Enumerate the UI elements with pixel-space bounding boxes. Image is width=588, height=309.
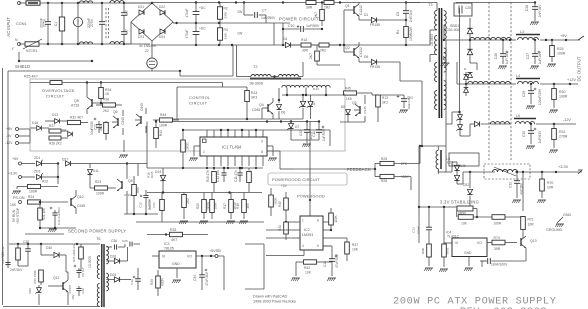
svg-text:47uF/16V: 47uF/16V [205,271,209,286]
svg-text:R35 220K/1W: R35 220K/1W [72,244,76,262]
svg-text:ZD1: ZD1 [34,156,40,160]
svg-text:VI: VI [455,241,458,245]
svg-text:C26: C26 [494,53,498,59]
svg-text:18nF/100V: 18nF/100V [491,263,508,267]
svg-text:R27: R27 [49,124,55,128]
svg-text:C11: C11 [312,131,316,137]
svg-text:D1: D1 [364,13,368,17]
svg-text:-12V: -12V [5,141,13,145]
svg-text:270R: 270R [559,135,568,139]
svg-text:D14: D14 [313,87,319,91]
svg-text:2K7: 2K7 [309,53,313,59]
svg-text:VI: VI [162,255,165,259]
svg-text:2R2: 2R2 [320,49,326,53]
svg-text:5: 5 [317,244,319,248]
svg-text:3K3: 3K3 [251,96,257,100]
svg-text:C27: C27 [526,53,530,59]
svg-text:+12V: +12V [567,78,576,82]
svg-text:L3: L3 [520,30,524,34]
svg-text:100K: 100K [421,248,425,255]
svg-text:8: 8 [261,150,263,154]
svg-text:D22: D22 [159,5,165,9]
svg-text:C945: C945 [140,103,144,111]
svg-text:R32 4K7: R32 4K7 [70,116,83,120]
svg-text:VO: VO [187,255,192,259]
svg-text:C18: C18 [323,261,327,267]
svg-text:C33: C33 [412,227,416,233]
svg-text:Q4: Q4 [259,103,264,107]
svg-text:10R: 10R [528,223,535,227]
svg-text:C22: C22 [299,130,303,136]
svg-text:ZD2: ZD2 [28,288,32,294]
svg-text:R4: R4 [396,30,400,34]
svg-text:CONTROL: CONTROL [189,95,211,100]
svg-text:+DC: +DC [199,27,206,31]
svg-text:T2: T2 [253,65,258,69]
svg-text:R31: R31 [559,130,566,134]
svg-text:R70: R70 [547,181,553,185]
svg-text:R25: R25 [381,157,387,161]
svg-text:150K: 150K [401,175,410,179]
svg-text:2nF/1kV: 2nF/1kV [409,9,413,22]
svg-text:680R: 680R [274,198,278,205]
svg-text:+DC: +DC [199,6,206,10]
svg-text:LM393: LM393 [302,233,313,237]
svg-text:C945: C945 [121,117,125,125]
svg-text:2nF/1kV: 2nF/1kV [10,268,23,272]
svg-text:C1: C1 [54,22,58,26]
svg-text:ZD3: ZD3 [34,170,40,174]
svg-text:1uF/250V: 1uF/250V [261,16,276,20]
svg-text:470uF: 470uF [185,29,189,38]
svg-text:D23: D23 [138,35,144,39]
svg-text:GROUND: GROUND [546,228,563,232]
svg-text:D6: D6 [281,111,285,115]
svg-text:+3.3V: +3.3V [8,172,18,176]
svg-text:Q2: Q2 [345,46,350,50]
svg-text:OVERVOLTAGE: OVERVOLTAGE [42,88,75,93]
svg-text:D7: D7 [295,125,299,129]
svg-text:C40: C40 [81,288,85,294]
svg-text:R18: R18 [236,203,240,209]
svg-text:D8: D8 [341,105,345,109]
svg-text:D32: D32 [463,183,469,187]
svg-text:1: 1 [302,219,304,223]
svg-text:R44: R44 [160,113,166,117]
svg-text:C29: C29 [522,91,526,97]
svg-text:C945: C945 [363,106,367,114]
svg-text:R14: R14 [251,91,257,95]
svg-text:Drawn with PadCAD: Drawn with PadCAD [253,295,287,299]
svg-text:IC2: IC2 [304,228,310,232]
svg-text:100R: 100R [494,222,503,226]
svg-text:-12V: -12V [563,118,571,122]
svg-text:C7: C7 [262,9,266,13]
svg-text:R43: R43 [159,130,163,136]
svg-text:SHIELD: SHIELD [15,64,30,69]
svg-text:POWERGOOD CIRCUIT: POWERGOOD CIRCUIT [272,177,320,182]
svg-text:D14: D14 [155,170,161,174]
svg-text:4n7: 4n7 [125,29,129,35]
svg-text:VO: VO [477,241,482,245]
svg-text:2K2: 2K2 [186,198,190,204]
svg-text:R74: R74 [494,236,500,240]
svg-text:A733: A733 [71,104,79,108]
svg-text:C945: C945 [252,108,260,112]
svg-text:-5V: -5V [6,134,12,138]
svg-text:C38: C38 [23,240,29,244]
svg-text:IC3: IC3 [164,242,170,246]
svg-text:GND: GND [464,251,472,255]
svg-text:L4: L4 [516,74,520,78]
svg-text:100R/2W: 100R/2W [409,26,413,41]
svg-text:10K: 10K [305,271,312,275]
svg-text:D21: D21 [138,5,144,9]
svg-text:20V: 20V [71,294,75,299]
svg-text:C13 1uF/50V: C13 1uF/50V [57,206,61,225]
svg-text:100R: 100R [559,95,568,99]
svg-text:D4: D4 [283,37,287,41]
svg-text:D9: D9 [364,55,368,59]
svg-text:100nF: 100nF [417,226,421,235]
svg-text:Q5: Q5 [74,99,79,103]
svg-text:GND: GND [563,213,571,217]
svg-text:1998-2003 Pavel Ruzicka: 1998-2003 Pavel Ruzicka [253,300,297,304]
svg-text:C25: C25 [465,6,471,10]
svg-text:IC1 TL494: IC1 TL494 [222,145,242,150]
svg-text:1K5: 1K5 [346,97,352,101]
svg-text:19-0303: 19-0303 [430,34,434,46]
svg-text:330K: 330K [224,31,228,39]
svg-text:98-3008: 98-3008 [250,82,263,86]
svg-text:A733: A733 [124,193,131,197]
svg-text:100K: 100K [334,214,338,222]
svg-text:R13: R13 [382,96,388,100]
svg-text:2K91: 2K91 [186,142,190,150]
svg-text:330K: 330K [224,10,228,18]
svg-text:10uF/16V: 10uF/16V [407,97,411,110]
svg-text:R40: R40 [278,201,282,207]
svg-text:Q8: Q8 [128,179,133,183]
svg-text:NTCR1: NTCR1 [26,49,37,53]
svg-text:R45: R45 [345,87,351,91]
svg-text:3K3: 3K3 [382,101,388,105]
svg-text:+5V STOP: +5V STOP [16,207,20,224]
svg-text:27K: 27K [401,162,408,166]
svg-text:R26: R26 [381,179,387,183]
svg-text:2R2: 2R2 [324,6,330,10]
svg-text:C945: C945 [77,204,85,208]
svg-text:100R: 100R [96,192,105,196]
svg-text:1W: 1W [237,10,243,14]
svg-text:C36: C36 [111,239,117,243]
svg-text:8: 8 [317,219,319,223]
svg-text:CIRCUIT: CIRCUIT [189,101,208,106]
svg-text:C12: C12 [93,124,97,130]
svg-text:R23: R23 [95,180,101,184]
svg-text:R37: R37 [352,243,358,247]
svg-text:D30: D30 [46,246,52,250]
svg-text:4: 4 [302,244,304,248]
svg-text:R33: R33 [170,228,176,232]
svg-text:R29: R29 [557,47,564,51]
svg-text:10R: 10R [547,186,554,190]
svg-text:10K: 10K [352,248,359,252]
svg-text:100uF/25V: 100uF/25V [538,88,542,105]
svg-text:Q13: Q13 [530,239,537,243]
svg-text:R1A: R1A [301,38,308,42]
svg-text:Z2: Z2 [145,49,149,53]
svg-text:D29: D29 [110,273,116,277]
svg-text:R30: R30 [559,90,566,94]
svg-text:R24: R24 [28,195,34,199]
svg-text:C31: C31 [509,182,513,188]
svg-text:R28 2K2: R28 2K2 [49,142,62,146]
svg-text:100R: 100R [159,124,168,128]
svg-text:R36 150K: R36 150K [33,270,37,283]
svg-text:CIRCUIT: CIRCUIT [46,94,65,99]
svg-text:C3467: C3467 [68,284,72,293]
svg-text:R2: R2 [224,7,228,11]
svg-text:3K15: 3K15 [150,171,154,178]
svg-text:C34: C34 [193,275,197,281]
svg-text:1uF/63V: 1uF/63V [538,130,542,143]
svg-text:+3.3V: +3.3V [558,165,569,169]
svg-text:R39: R39 [150,279,154,285]
svg-text:C26: C26 [122,239,128,243]
svg-text:47uF/50V: 47uF/50V [335,253,339,268]
svg-text:C16: C16 [152,202,156,208]
svg-text:Q6: Q6 [113,110,118,114]
svg-text:C30: C30 [522,131,526,137]
svg-text:POWERGOOD: POWERGOOD [297,194,325,199]
svg-text:Q10: Q10 [77,195,84,199]
svg-text:78L05: 78L05 [164,247,174,251]
svg-text:+5VSB: +5VSB [209,249,221,253]
svg-text:C39: C39 [130,279,134,285]
svg-text:1uF/16V: 1uF/16V [538,51,542,64]
svg-text:C9 4n7: C9 4n7 [81,267,85,277]
svg-text:+5V: +5V [281,184,288,188]
svg-text:200W PC ATX POWER SUPPLY: 200W PC ATX POWER SUPPLY [393,297,557,308]
svg-text:470uF: 470uF [185,8,189,17]
svg-text:C11 47n: C11 47n [234,170,238,182]
svg-text:4n7: 4n7 [125,10,129,16]
svg-text:39R: 39R [306,6,313,10]
svg-text:+5V: +5V [560,34,567,38]
svg-text:275V: 275V [43,18,47,27]
svg-text:PS-ON: PS-ON [13,196,25,200]
svg-text:SECOND POWER SUPPLY: SECOND POWER SUPPLY [68,229,126,234]
svg-text:2u2/50V: 2u2/50V [148,199,152,210]
svg-text:C4242: C4242 [359,5,363,15]
svg-text:C4242: C4242 [359,47,363,57]
svg-text:FR156: FR156 [370,65,380,69]
svg-text:D13: D13 [52,113,58,117]
svg-text:10-0005: 10-0005 [88,256,92,268]
svg-text:Q1: Q1 [345,4,350,8]
svg-text:R71: R71 [528,218,534,222]
svg-text:D8: D8 [62,129,66,133]
svg-text:C14 15n: C14 15n [216,170,220,182]
svg-text:2K7: 2K7 [314,12,318,18]
svg-text:100R: 100R [557,52,566,56]
svg-text:10K: 10K [461,222,468,226]
svg-text:1K5: 1K5 [246,203,250,209]
svg-text:100R: 100R [29,190,38,194]
svg-text:39R: 39R [494,247,501,251]
svg-text:C8: C8 [396,12,400,16]
svg-text:3.3V STABILIZING: 3.3V STABILIZING [440,199,479,204]
svg-text:1uF/50V: 1uF/50V [322,128,326,141]
svg-text:+5V: +5V [12,157,19,161]
svg-text:T6: T6 [96,237,101,241]
svg-text:D18: D18 [32,121,38,125]
svg-text:L5: L5 [516,114,520,118]
svg-text:FR155: FR155 [370,23,380,27]
svg-text:T3: T3 [428,3,433,7]
svg-text:CON1: CON1 [16,22,27,26]
svg-text:R3: R3 [224,28,228,32]
svg-text:R19 27K: R19 27K [206,169,210,182]
svg-text:R20: R20 [196,203,200,209]
svg-text:680R: 680R [161,278,165,286]
svg-text:DC OUTPUT: DC OUTPUT [577,56,582,81]
svg-text:R25 4K7: R25 4K7 [24,75,38,79]
svg-text:C28: C28 [525,5,529,11]
svg-text:R36: R36 [103,98,109,102]
svg-text:9: 9 [261,140,263,144]
svg-text:1uF/50V: 1uF/50V [306,24,320,28]
svg-text:4K7: 4K7 [99,125,103,131]
svg-text:R17: R17 [223,203,227,209]
svg-text:AC INPUT: AC INPUT [6,17,11,37]
svg-text:R42: R42 [304,266,310,270]
svg-text:1: 1 [203,150,205,154]
svg-text:R21 10K: R21 10K [42,207,46,220]
svg-text:150R: 150R [214,202,218,210]
svg-text:275V: 275V [90,18,94,27]
svg-text:39R: 39R [302,49,309,53]
svg-text:R38 68K/1W: R38 68K/1W [1,246,5,263]
svg-text:1W: 1W [237,32,243,36]
svg-text:2K2: 2K2 [103,109,109,113]
svg-text:Q12: Q12 [53,276,59,280]
svg-text:D24: D24 [159,35,165,39]
svg-text:R55: R55 [136,187,140,193]
svg-text:D28: D28 [110,255,116,259]
svg-text:FEEDBACK: FEEDBACK [347,167,371,172]
svg-text:R22: R22 [42,180,48,184]
svg-text:Q3: Q3 [352,101,357,105]
svg-text:C15: C15 [139,202,143,208]
svg-text:GND: GND [172,262,180,266]
svg-text:+5V: +5V [6,127,13,131]
svg-text:3K01: 3K01 [446,247,450,254]
svg-text:1K: 1K [105,92,110,96]
svg-text:15K: 15K [10,203,17,207]
svg-text:D11: D11 [93,169,99,173]
svg-text:1nF/16V: 1nF/16V [538,4,542,17]
svg-text:1uF/16V: 1uF/16V [505,51,509,64]
svg-text:4K7: 4K7 [171,238,177,242]
svg-text:C92-004: C92-004 [446,28,460,32]
svg-text:C10: C10 [288,24,295,28]
